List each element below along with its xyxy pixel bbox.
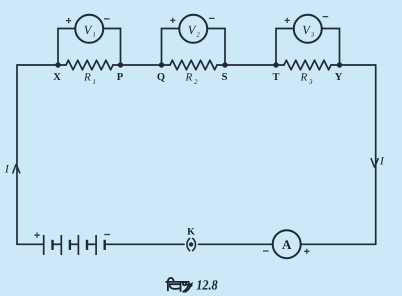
svg-text:1: 1 [93,78,97,86]
svg-text:12.8: 12.8 [196,278,218,293]
svg-text:S: S [222,72,228,83]
node T [272,62,279,83]
wire bottom-left to battery [17,243,43,245]
battery polarity labels [34,233,110,238]
wire key to ammeter [199,243,273,245]
svg-text:R: R [83,72,91,84]
node X [53,62,61,83]
voltmeter V1 [58,15,121,64]
wire left side vertical [16,65,18,244]
node Q [157,62,165,83]
ammeter A [263,230,309,258]
wire top-left segment [17,64,66,66]
node S [222,62,228,83]
current arrow right (down) [371,156,385,168]
svg-text:P: P [117,72,124,83]
svg-text:X: X [53,72,61,83]
wire battery to key [106,243,185,245]
label R1 [83,72,96,87]
label R2 [185,72,199,87]
wire right side vertical [375,65,377,244]
node Y [335,62,343,83]
key K [187,227,196,252]
svg-text:R: R [300,72,308,84]
node P [117,62,124,83]
svg-text:K: K [187,227,195,238]
resistor R3 [284,60,331,70]
svg-text:Q: Q [157,72,165,83]
label R3 [300,72,314,87]
wire S to T [217,64,284,66]
caption figure label [166,278,218,293]
svg-text:1: 1 [93,32,96,39]
svg-text:A: A [282,237,292,252]
svg-text:3: 3 [308,78,313,86]
svg-text:T: T [272,72,279,83]
svg-text:R: R [185,72,193,84]
voltmeter V2 [162,15,226,64]
resistor R1 [66,60,113,70]
wire Y to top-right corner [331,64,376,66]
current arrow left (up) [4,164,20,176]
svg-text:Y: Y [335,72,343,83]
resistor R2 [170,60,217,70]
svg-text:2: 2 [194,78,198,86]
battery B1 (4 cells) [44,235,105,255]
voltmeter V3 [276,15,340,64]
wire P to Q [113,64,170,66]
wire ammeter to bottom-right corner [301,243,376,245]
